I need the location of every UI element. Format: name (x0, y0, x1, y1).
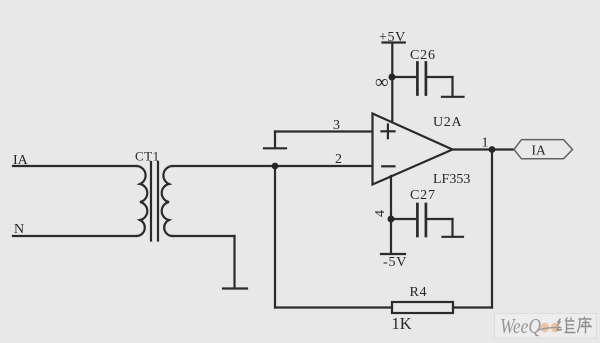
svg-text:1K: 1K (392, 314, 412, 333)
svg-text:1: 1 (482, 136, 489, 151)
svg-text:U2A: U2A (433, 115, 463, 130)
svg-text:N: N (14, 222, 24, 237)
svg-text:LF353: LF353 (433, 172, 470, 187)
svg-text:IA: IA (532, 143, 546, 158)
svg-text:C26: C26 (410, 48, 436, 63)
svg-text:3: 3 (333, 118, 340, 133)
svg-text:2: 2 (335, 152, 342, 167)
svg-text:WeeQ: WeeQ (500, 314, 541, 338)
svg-text:R4: R4 (410, 285, 428, 300)
svg-text:CT1: CT1 (135, 149, 160, 164)
svg-text:-5V: -5V (383, 255, 407, 270)
svg-text:C27: C27 (410, 188, 436, 203)
svg-text:∞: ∞ (375, 72, 389, 93)
svg-text:IA: IA (13, 153, 29, 168)
svg-text:4: 4 (373, 210, 388, 217)
svg-text:+5V: +5V (379, 30, 406, 45)
